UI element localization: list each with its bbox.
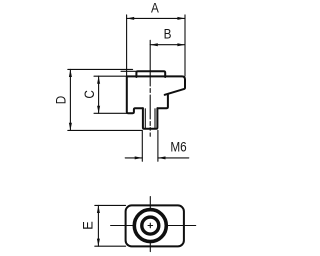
dimension A: dimension line: [127, 17, 185, 19]
side view: threaded stud M6: [143, 108, 158, 129]
dimension D: dimension line: [69, 69, 71, 130]
dimension D: bottom extension line: [68, 129, 142, 131]
dimension D: top extension line: [68, 68, 133, 70]
arrow C top: [97, 76, 100, 84]
dimension M6: right dimension line: [158, 157, 189, 159]
arrow M6 left: [135, 156, 143, 159]
dimension E: dimension line: [97, 205, 99, 246]
arrow D top: [69, 69, 72, 77]
arrow B left: [150, 43, 158, 46]
bottom view: inner circle (thread): [142, 217, 159, 234]
bottom view: outer circle (washer): [134, 210, 166, 242]
arrow D bottom: [69, 123, 72, 131]
dimension C: dimension line: [98, 76, 100, 113]
stud thread minor line right: [154, 109, 156, 128]
bottom view: rounded rectangle outline: [126, 205, 184, 246]
pad top reference line: [121, 70, 136, 72]
bottom view: vertical centerline: [149, 197, 151, 252]
arrow A right: [177, 17, 185, 20]
svg-text:E: E: [80, 221, 96, 230]
svg-text:B: B: [164, 26, 172, 42]
dimension M6: left extension line: [141, 130, 143, 161]
dimension B: dimension line: [150, 44, 185, 46]
stud thread minor line left: [144, 109, 146, 128]
svg-text:A: A: [151, 0, 159, 16]
dimension C: top extension line: [94, 75, 127, 77]
dimension E: bottom extension line: [95, 245, 126, 247]
side view: top pad: [136, 71, 165, 77]
arrow B right: [177, 43, 185, 46]
dimension A: right extension line (shared with B): [184, 15, 186, 76]
bottom view: horizontal centerline: [111, 225, 196, 227]
svg-text:M6: M6: [170, 138, 186, 154]
side view: nose lip and bottom profile left of stud: [127, 76, 168, 113]
arrow E top: [97, 205, 100, 213]
dimension C: bottom extension line: [94, 112, 127, 114]
side view: body outline: [127, 76, 185, 94]
svg-text:C: C: [81, 90, 97, 98]
dimension E: top extension line: [95, 204, 126, 206]
stud centerline (dash-dot, also B extension above pad): [149, 40, 151, 136]
dimension M6: left dimension line: [125, 157, 142, 159]
dimension A: left extension line: [126, 15, 128, 76]
arrow A left: [127, 17, 135, 20]
arrow M6 right: [158, 156, 166, 159]
svg-text:D: D: [53, 96, 69, 104]
arrow C bottom: [97, 106, 100, 114]
dimension M6: right extension line: [157, 130, 159, 161]
arrow E bottom: [97, 239, 100, 247]
